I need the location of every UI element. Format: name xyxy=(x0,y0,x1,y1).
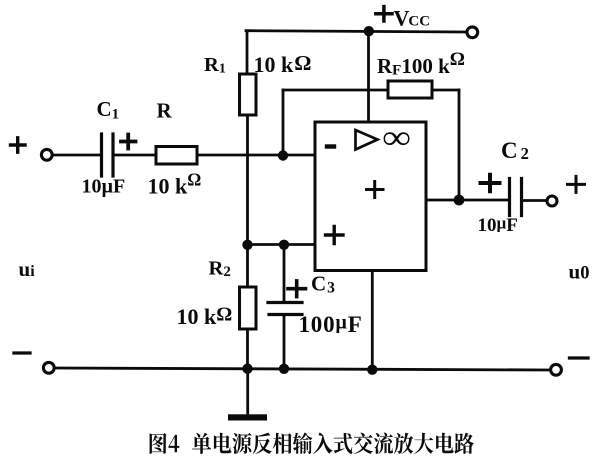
terminal +VCC xyxy=(467,27,478,38)
plus sign of +VCC label xyxy=(376,7,392,21)
plus sign C3 polarity xyxy=(288,281,306,297)
svg-text:u0: u0 xyxy=(569,260,590,284)
wire R1 top branch xyxy=(246,31,249,74)
wire C3 top lead xyxy=(283,245,286,302)
plus sign at output terminal xyxy=(568,176,585,192)
wire C1 to R xyxy=(115,154,157,157)
ground bar xyxy=(228,414,267,420)
wire R2 bottom xyxy=(246,329,249,369)
node C3 tap xyxy=(279,240,289,250)
node output junction xyxy=(454,195,465,206)
minus sign bottom-right xyxy=(570,356,589,359)
svg-text:10µF: 10µF xyxy=(82,176,126,198)
wire node B to R2 xyxy=(246,245,249,288)
node VCC junction xyxy=(364,26,374,36)
op-amp noninverting plus xyxy=(326,227,344,244)
wire top rail xyxy=(246,31,465,32)
minus sign bottom-left xyxy=(14,351,30,354)
resistor R1 xyxy=(240,74,257,115)
op-amp triangle symbol xyxy=(356,130,378,150)
node B (bias divider tap) xyxy=(242,240,252,250)
wire VCC to op-amp pin xyxy=(367,31,370,122)
wire RF to output riser xyxy=(432,89,459,92)
wire R to op-amp inverting input xyxy=(197,154,315,157)
wire op-amp ground pin xyxy=(371,271,374,370)
capacitor C1 xyxy=(102,134,114,176)
plus sign at input terminal xyxy=(11,138,26,152)
resistor R2 xyxy=(240,287,257,329)
wire op-amp output xyxy=(426,199,509,202)
wire output riser xyxy=(458,90,461,200)
wire C3 bottom lead xyxy=(283,316,286,369)
terminal input top-left xyxy=(41,149,52,160)
resistor R xyxy=(156,147,197,165)
op-amp U1 box xyxy=(315,122,426,271)
svg-text:∞: ∞ xyxy=(383,118,411,156)
svg-text:10 kΩ: 10 kΩ xyxy=(254,51,312,77)
capacitor C2 xyxy=(510,179,522,216)
svg-text:R: R xyxy=(157,98,173,122)
ground stub xyxy=(246,369,249,413)
wire bottom rail xyxy=(56,368,550,370)
wire feedback riser xyxy=(282,90,285,155)
terminal bottom-right xyxy=(551,364,562,375)
wire feedback to RF xyxy=(283,89,388,92)
wire R1 bottom to node B xyxy=(246,115,249,245)
node C3 bottom junction xyxy=(279,364,289,374)
svg-text:100µF: 100µF xyxy=(299,312,363,338)
node ground pin junction xyxy=(367,365,377,375)
wire C2 to output terminal xyxy=(523,199,546,202)
resistor RF xyxy=(388,81,432,98)
plus sign C1 polarity xyxy=(121,135,136,149)
terminal output right xyxy=(547,196,557,206)
terminal bottom-left xyxy=(43,362,54,373)
caption: figure 4 single-supply inverting AC amplifier circuit xyxy=(150,433,474,455)
plus sign C2 polarity xyxy=(481,175,500,191)
capacitor C3 xyxy=(268,303,302,315)
svg-text:10 kΩ: 10 kΩ xyxy=(177,304,233,330)
node R2/ground junction xyxy=(242,364,252,374)
node A (inverting input junction) xyxy=(278,150,288,160)
wire input to C1 xyxy=(54,154,102,157)
op-amp center plus xyxy=(367,182,384,198)
op-amp minus input sign xyxy=(327,144,334,148)
wire bias to noninverting input xyxy=(248,243,316,246)
